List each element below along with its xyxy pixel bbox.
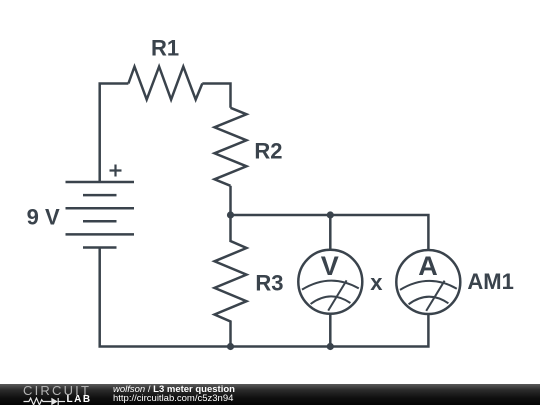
- resistor R1: [128, 67, 202, 100]
- wire R1 right to R2 top: [202, 84, 230, 108]
- battery V1 plate long 1: [66, 181, 135, 184]
- attribution line author/title: [113, 384, 235, 395]
- wire voltmeter bottom stub: [329, 314, 332, 347]
- battery V1 plate long 2: [66, 207, 135, 210]
- wire top rail node A to ammeter top: [231, 215, 429, 250]
- wire bottom rail battery to ammeter bottom: [100, 248, 429, 347]
- ammeter scale arc lower: [409, 297, 449, 305]
- ammeter AM1 circle: [396, 250, 460, 314]
- resistor R3: [215, 215, 247, 347]
- voltmeter scale arc lower: [311, 296, 351, 304]
- CircuitLab logo wordmark LAB: [67, 394, 92, 405]
- CircuitLab logo wordmark CIRCUIT: [23, 383, 91, 398]
- voltmeter circle: [298, 250, 362, 314]
- voltmeter scale arc upper: [302, 281, 359, 290]
- junction node A dot: [227, 211, 234, 218]
- wire battery positive to R1 left: [100, 84, 129, 183]
- wire R2 bottom to node A: [229, 186, 232, 215]
- battery V1 plate long 3: [66, 233, 135, 236]
- junction voltmeter bottom dot: [327, 343, 334, 350]
- svg-text:AM1: AM1: [467, 269, 513, 294]
- ammeter scale arc upper: [400, 281, 457, 290]
- svg-text:R1: R1: [151, 36, 179, 61]
- battery V1 plate short 3: [83, 246, 117, 249]
- footer bar: [0, 384, 540, 406]
- svg-text:R3: R3: [255, 270, 283, 295]
- svg-text:V: V: [321, 251, 339, 281]
- voltmeter needle: [328, 280, 346, 310]
- svg-text:9 V: 9 V: [27, 205, 60, 230]
- CircuitLab logo resistor-diode glyph: [23, 397, 67, 406]
- battery plus sign: [110, 165, 122, 177]
- wire voltmeter top stub: [329, 215, 332, 250]
- resistor R2: [215, 108, 247, 186]
- junction voltmeter top dot: [327, 211, 334, 218]
- svg-text:A: A: [418, 251, 438, 281]
- battery V1 plate short 2: [83, 220, 117, 223]
- ammeter needle: [426, 281, 444, 311]
- battery V1 plate short 1: [83, 194, 117, 197]
- svg-text:x: x: [370, 270, 383, 295]
- svg-text:R2: R2: [254, 138, 282, 163]
- junction R3 bottom dot: [227, 343, 234, 350]
- attribution line url: [113, 393, 233, 404]
